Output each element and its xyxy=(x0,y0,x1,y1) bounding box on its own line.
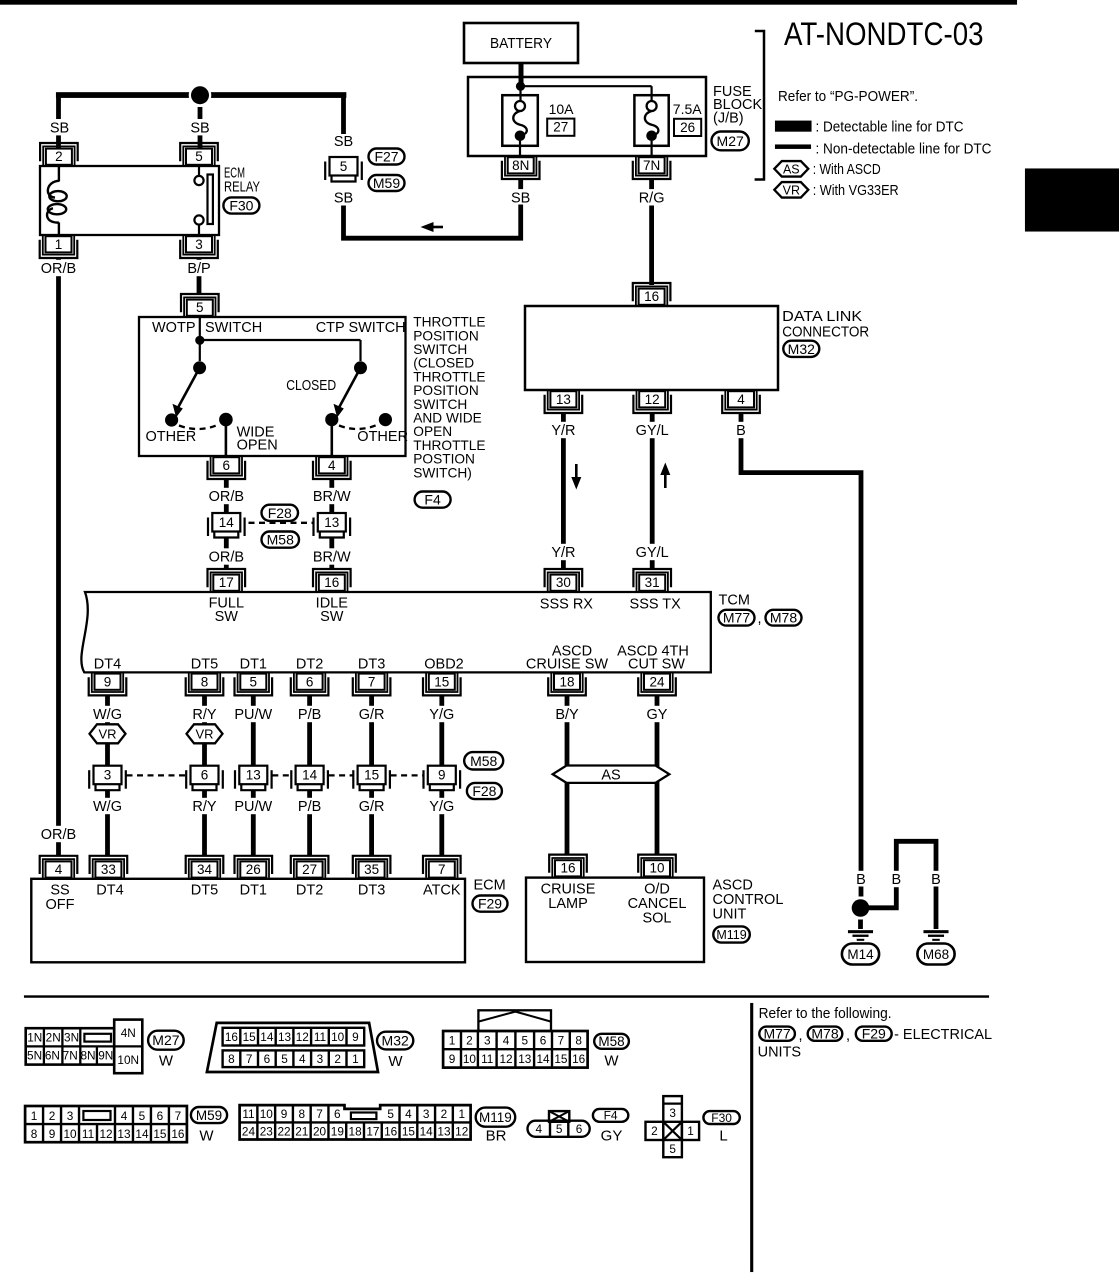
wire junction to M68 elbow xyxy=(866,887,896,908)
svg-text:5: 5 xyxy=(139,1109,146,1123)
svg-text:3: 3 xyxy=(104,768,112,783)
connector ref F30 xyxy=(703,1111,739,1124)
svg-text:9N: 9N xyxy=(98,1049,113,1063)
net label P/B xyxy=(295,798,324,814)
svg-text:M27: M27 xyxy=(152,1032,179,1048)
wire P/B TCM to connector 14 xyxy=(307,695,312,765)
legend VR symbol xyxy=(774,182,808,198)
net label OR/B xyxy=(40,260,77,276)
svg-text:,: , xyxy=(846,1028,850,1044)
net label BR/W xyxy=(313,488,350,504)
svg-text:3: 3 xyxy=(669,1106,676,1120)
svg-text:3: 3 xyxy=(423,1107,430,1121)
svg-text:6: 6 xyxy=(201,768,209,783)
contact WIDE OPEN xyxy=(219,413,233,427)
legend detectable line swatch xyxy=(775,121,812,132)
svg-text:6: 6 xyxy=(306,675,314,690)
svg-text:OFF: OFF xyxy=(46,897,75,913)
wire BR/W 13 to TCM 16 xyxy=(329,538,334,569)
svg-text:SB: SB xyxy=(50,120,69,136)
svg-text:14: 14 xyxy=(135,1127,149,1141)
svg-text:7N: 7N xyxy=(643,158,660,173)
svg-text:WOTP: WOTP xyxy=(152,320,196,336)
connector pin 16 xyxy=(636,286,667,305)
svg-text:4: 4 xyxy=(737,392,745,407)
svg-text:B: B xyxy=(856,872,866,888)
ECM box xyxy=(31,879,465,963)
dashed connector link 13-14 xyxy=(272,774,290,776)
svg-text:8: 8 xyxy=(575,1034,582,1048)
svg-text:4: 4 xyxy=(405,1107,412,1121)
net label R/G xyxy=(637,189,666,205)
svg-text:6: 6 xyxy=(264,1052,271,1066)
wire SB to relay pin 5 xyxy=(198,107,203,148)
svg-text:OR/B: OR/B xyxy=(209,550,244,566)
svg-text:6: 6 xyxy=(334,1107,341,1121)
connector ref F4 xyxy=(415,492,451,508)
connector layout M59 xyxy=(25,1106,187,1142)
connector pin 31 xyxy=(637,572,668,591)
svg-text:UNITS: UNITS xyxy=(758,1045,802,1061)
svg-text:7.5A: 7.5A xyxy=(673,101,702,117)
svg-text:F28: F28 xyxy=(472,783,496,799)
svg-text:24: 24 xyxy=(242,1124,256,1138)
svg-text:W/G: W/G xyxy=(93,707,122,723)
svg-text:7: 7 xyxy=(368,675,376,690)
svg-text:34: 34 xyxy=(197,862,213,877)
svg-text:15: 15 xyxy=(554,1052,568,1066)
svg-text:30: 30 xyxy=(556,575,571,590)
connector 14 F28/M58 xyxy=(207,518,209,537)
svg-text:PU/W: PU/W xyxy=(234,707,272,723)
fuse block M27 box xyxy=(468,77,706,156)
svg-text:5: 5 xyxy=(521,1034,528,1048)
svg-text:AT-NONDTC-03: AT-NONDTC-03 xyxy=(784,16,984,52)
svg-text:16: 16 xyxy=(644,289,659,304)
node ground junction xyxy=(849,897,871,919)
svg-text:PU/W: PU/W xyxy=(234,799,272,815)
separator vertical line xyxy=(750,1003,753,1272)
svg-text:15: 15 xyxy=(364,768,379,783)
VR option symbol xyxy=(90,724,126,743)
svg-text:20: 20 xyxy=(313,1124,327,1138)
net label B xyxy=(890,871,903,887)
svg-text:12: 12 xyxy=(499,1052,512,1066)
svg-text:8: 8 xyxy=(299,1107,306,1121)
svg-text:5: 5 xyxy=(250,675,258,690)
connector 3 M58/F28 xyxy=(88,770,90,789)
svg-text:23: 23 xyxy=(260,1124,274,1138)
svg-text:7: 7 xyxy=(316,1107,323,1121)
connector pin 9 xyxy=(92,673,123,692)
svg-text:9: 9 xyxy=(49,1127,56,1141)
svg-text:VR: VR xyxy=(783,183,800,197)
svg-text:18: 18 xyxy=(559,675,574,690)
connector layout M58 xyxy=(478,1010,551,1031)
svg-text:13: 13 xyxy=(437,1124,451,1138)
connector pin 27 xyxy=(294,859,325,878)
svg-text:SB: SB xyxy=(334,134,353,150)
wire R/Y to ECM xyxy=(202,790,207,856)
relay ECM RELAY box xyxy=(40,166,219,235)
svg-text:5: 5 xyxy=(340,159,348,174)
svg-text:4: 4 xyxy=(55,862,63,877)
net label Y/R xyxy=(549,422,578,438)
svg-text:19: 19 xyxy=(331,1124,344,1138)
net label SB xyxy=(49,119,70,135)
connector 9 M58/F28 xyxy=(422,770,424,789)
svg-text:M58: M58 xyxy=(470,753,497,769)
net label SB xyxy=(510,189,531,205)
svg-text:R/Y: R/Y xyxy=(192,799,217,815)
node fuse block junction xyxy=(516,82,525,91)
wire OR/B 14 to TCM 17 xyxy=(224,538,229,569)
svg-text:M68: M68 xyxy=(923,947,949,962)
svg-text:F29: F29 xyxy=(478,896,502,912)
svg-text:DT3: DT3 xyxy=(358,882,385,898)
wire wotp feed xyxy=(199,317,201,361)
svg-text:13: 13 xyxy=(556,392,571,407)
wire junction to M14 ground xyxy=(858,920,863,930)
connector ref M27 xyxy=(712,132,749,151)
wire B to ground junction xyxy=(859,887,864,897)
connector pin 2 xyxy=(43,146,74,165)
svg-text:SWITCH: SWITCH xyxy=(205,320,262,336)
svg-text:CLOSED: CLOSED xyxy=(286,378,336,394)
svg-text:21: 21 xyxy=(295,1124,308,1138)
svg-text:14: 14 xyxy=(302,768,318,783)
svg-text:26: 26 xyxy=(680,120,695,135)
svg-text:9: 9 xyxy=(449,1052,456,1066)
connector 6 M58/F28 xyxy=(185,770,187,789)
net label PU/W xyxy=(235,798,272,814)
svg-text:M119: M119 xyxy=(479,1110,512,1125)
svg-text:AS: AS xyxy=(783,162,800,176)
contact CLOSED xyxy=(325,413,338,426)
black index tab xyxy=(1025,169,1119,232)
svg-text:6N: 6N xyxy=(45,1049,60,1063)
wire PU/W TCM to connector 13 xyxy=(251,695,256,765)
svg-text:LAMP: LAMP xyxy=(548,896,588,912)
TCM box xyxy=(81,592,710,672)
connector pin 4 xyxy=(725,391,756,410)
svg-text:5: 5 xyxy=(196,300,204,315)
connector ref F28 xyxy=(467,783,502,799)
svg-text:16: 16 xyxy=(171,1127,185,1141)
svg-text:1: 1 xyxy=(352,1052,359,1066)
svg-text:4: 4 xyxy=(121,1109,128,1123)
svg-text:M59: M59 xyxy=(196,1108,222,1123)
svg-text:TCM: TCM xyxy=(719,593,750,609)
net label P/B xyxy=(295,706,324,722)
svg-text:10N: 10N xyxy=(117,1053,139,1067)
net label SB xyxy=(189,119,210,135)
svg-text:B/P: B/P xyxy=(187,261,210,277)
svg-text:G/R: G/R xyxy=(359,707,385,723)
wire ctp feed xyxy=(200,339,361,341)
svg-text:10: 10 xyxy=(260,1107,274,1121)
connector pin 33 xyxy=(93,859,124,878)
svg-text:35: 35 xyxy=(364,862,379,877)
svg-text:GY/L: GY/L xyxy=(636,545,669,561)
node throttle junction xyxy=(195,336,204,345)
svg-text:14: 14 xyxy=(260,1030,274,1044)
connector pin 13 xyxy=(548,391,579,410)
wire OR/B pin6 to 14 xyxy=(224,479,229,513)
svg-text:4: 4 xyxy=(535,1122,542,1136)
relay contact xyxy=(198,166,200,176)
svg-text:M77: M77 xyxy=(723,610,750,626)
svg-text:3: 3 xyxy=(195,237,203,252)
net label GY/L xyxy=(633,422,670,438)
svg-text:Refer to the following.: Refer to the following. xyxy=(759,1006,892,1022)
svg-text:W: W xyxy=(159,1053,174,1070)
net label B/Y xyxy=(552,706,581,722)
svg-text:Y/G: Y/G xyxy=(429,799,454,815)
svg-text:: With ASCD: : With ASCD xyxy=(813,162,881,178)
wire B/P relay pin3 down xyxy=(197,258,202,294)
ground M68 xyxy=(924,930,949,933)
svg-text:OTHER: OTHER xyxy=(357,429,408,445)
dashed throw arc xyxy=(339,425,378,430)
connector pin 35 xyxy=(356,859,387,878)
svg-text:- ELECTRICAL: - ELECTRICAL xyxy=(894,1027,992,1043)
net label BR/W xyxy=(313,548,350,564)
connector pin 34 xyxy=(189,859,220,878)
wire battery to fuse block xyxy=(519,63,524,84)
svg-text:BR/W: BR/W xyxy=(313,550,351,566)
connector ref M32 xyxy=(377,1032,413,1050)
svg-text:GY: GY xyxy=(647,707,668,723)
svg-text:14: 14 xyxy=(219,515,235,530)
svg-text:Y/R: Y/R xyxy=(551,423,575,439)
svg-text:DT2: DT2 xyxy=(296,656,323,672)
svg-text:9: 9 xyxy=(281,1107,288,1121)
wire P/B to ECM xyxy=(307,790,312,856)
flow arrow up xyxy=(664,474,667,488)
connector layout M32 xyxy=(207,1023,378,1072)
connector 13 M58/F28 xyxy=(234,770,236,789)
net label W/G xyxy=(93,798,122,814)
connector pin 8 xyxy=(189,673,220,692)
svg-text:13: 13 xyxy=(117,1127,131,1141)
svg-text:27: 27 xyxy=(302,862,317,877)
svg-text:8: 8 xyxy=(228,1052,235,1066)
svg-text:CTP SWITCH: CTP SWITCH xyxy=(316,320,406,336)
wire GY TCM 24 down xyxy=(655,695,660,855)
svg-text:7: 7 xyxy=(175,1109,182,1123)
wire Y/G TCM to connector 9 xyxy=(439,695,444,765)
svg-text:SOL: SOL xyxy=(642,910,671,926)
connector ref M78 xyxy=(766,610,802,626)
wire R/G 7N to DLC xyxy=(649,179,654,190)
net label OR/B xyxy=(208,548,245,564)
ASCD control unit box xyxy=(526,878,704,962)
svg-text:2: 2 xyxy=(49,1109,56,1123)
connector ref M77 xyxy=(759,1027,795,1041)
connector pin 3 xyxy=(183,236,214,255)
relay coil xyxy=(58,166,60,182)
connector ref F30 xyxy=(223,197,259,213)
svg-text:6: 6 xyxy=(540,1034,547,1048)
svg-text:1N: 1N xyxy=(27,1031,42,1045)
wire Y/G to ECM xyxy=(439,790,444,856)
svg-text:2: 2 xyxy=(651,1124,658,1138)
svg-text:15: 15 xyxy=(434,675,449,690)
connector ref M59 xyxy=(191,1107,227,1123)
switch WOTP arm xyxy=(193,361,206,374)
data link connector box M32 xyxy=(525,306,778,390)
svg-text:R/G: R/G xyxy=(639,191,665,207)
connector pin 1 xyxy=(43,236,74,255)
wire SB bus bar xyxy=(56,92,346,98)
net label B xyxy=(734,422,747,438)
svg-text:16: 16 xyxy=(324,575,339,590)
svg-text:CRUISE SW: CRUISE SW xyxy=(526,656,608,672)
contact OTHER right xyxy=(379,413,392,426)
wire W/G to ECM xyxy=(105,790,110,856)
connector ref M59 xyxy=(369,175,405,191)
connector ref F27 xyxy=(369,149,405,165)
net label G/R xyxy=(357,706,386,722)
svg-text:31: 31 xyxy=(645,575,660,590)
svg-text:3: 3 xyxy=(67,1109,74,1123)
svg-text:OBD2: OBD2 xyxy=(424,656,464,672)
svg-text:12: 12 xyxy=(645,392,660,407)
svg-text:BATTERY: BATTERY xyxy=(490,36,552,52)
svg-text:M32: M32 xyxy=(788,341,815,357)
svg-text:3: 3 xyxy=(317,1052,324,1066)
svg-text:DT4: DT4 xyxy=(94,656,121,672)
svg-text:CONNECTOR: CONNECTOR xyxy=(782,325,869,341)
svg-text:GY/L: GY/L xyxy=(636,423,669,439)
svg-text:F30: F30 xyxy=(711,1111,732,1125)
contact OTHER xyxy=(165,413,178,426)
svg-text:M78: M78 xyxy=(811,1026,838,1042)
connector ref F29 xyxy=(473,896,508,912)
net label B xyxy=(929,871,942,887)
svg-text:M78: M78 xyxy=(770,610,797,626)
svg-text:11: 11 xyxy=(242,1107,254,1121)
svg-text:F30: F30 xyxy=(229,198,253,214)
connector ref M58 xyxy=(262,532,300,548)
svg-text:RELAY: RELAY xyxy=(224,180,260,196)
svg-text:1: 1 xyxy=(55,237,63,252)
connector pin 5 xyxy=(238,673,269,692)
wire B down to M68 xyxy=(934,887,939,930)
connector 14 M58/F28 xyxy=(290,770,292,789)
svg-text:4: 4 xyxy=(328,458,336,473)
svg-text:11: 11 xyxy=(481,1052,493,1066)
svg-text:7: 7 xyxy=(558,1034,565,1048)
svg-text:B: B xyxy=(736,423,746,439)
svg-text:F27: F27 xyxy=(374,149,398,165)
dashed connector link 3-6 xyxy=(127,774,186,776)
net label Y/G xyxy=(427,798,456,814)
connector pin 30 xyxy=(548,572,579,591)
wire fuse block internal feed xyxy=(521,85,652,87)
svg-text:8: 8 xyxy=(31,1127,38,1141)
svg-text:R/Y: R/Y xyxy=(192,707,217,723)
svg-text:15: 15 xyxy=(153,1127,167,1141)
svg-text:3: 3 xyxy=(484,1034,491,1048)
svg-text:16: 16 xyxy=(572,1052,586,1066)
battery B1 xyxy=(464,23,578,63)
wire G/R TCM to connector 15 xyxy=(369,695,374,765)
svg-text:4N: 4N xyxy=(121,1026,136,1040)
svg-text:2N: 2N xyxy=(46,1031,61,1045)
flow arrow down xyxy=(575,464,578,478)
svg-text:OPEN: OPEN xyxy=(237,438,278,454)
separator line xyxy=(24,995,989,997)
svg-text:13: 13 xyxy=(278,1030,292,1044)
svg-text:BR/W: BR/W xyxy=(313,489,351,505)
svg-text:12: 12 xyxy=(296,1030,309,1044)
svg-text:27: 27 xyxy=(553,120,568,135)
net label W/G xyxy=(93,706,122,722)
net label GY xyxy=(646,706,667,722)
connector pin 5 xyxy=(184,297,215,316)
svg-text:M32: M32 xyxy=(382,1033,409,1049)
VR option symbol xyxy=(187,724,223,743)
connector pin 10 xyxy=(641,858,672,877)
svg-text:1: 1 xyxy=(458,1107,465,1121)
connector layout F30 xyxy=(663,1096,682,1157)
svg-text:M119: M119 xyxy=(716,928,746,942)
svg-text:5: 5 xyxy=(556,1122,563,1136)
svg-text:VR: VR xyxy=(195,726,213,741)
svg-text:1: 1 xyxy=(31,1109,38,1123)
connector ref F4 xyxy=(593,1109,628,1122)
connector pin 6 xyxy=(211,457,242,476)
svg-text:4: 4 xyxy=(299,1052,306,1066)
net label Y/G xyxy=(427,706,456,722)
svg-text:SSS RX: SSS RX xyxy=(540,596,594,612)
connector pin 15 xyxy=(426,673,457,692)
connector pin 6 xyxy=(294,673,325,692)
svg-text:DT2: DT2 xyxy=(296,882,323,898)
wire G/R to ECM xyxy=(369,790,374,856)
connector ref M77 xyxy=(719,610,755,626)
dashed connector link 15-9 xyxy=(391,774,423,776)
svg-text:F4: F4 xyxy=(604,1109,618,1123)
svg-text:2: 2 xyxy=(334,1052,341,1066)
connector layout F4 xyxy=(549,1111,569,1122)
svg-text:OR/B: OR/B xyxy=(41,827,76,843)
svg-text:DT1: DT1 xyxy=(240,656,267,672)
svg-text:AS: AS xyxy=(601,767,620,783)
svg-text:P/B: P/B xyxy=(298,799,321,815)
dashed connector link 14-15 xyxy=(329,774,353,776)
wire GY/L down to TCM 31 xyxy=(650,413,655,569)
connector layout M119 xyxy=(240,1105,471,1139)
connector pin 18 xyxy=(551,673,582,692)
svg-text:SB: SB xyxy=(334,191,353,207)
switch CTP arm xyxy=(354,361,367,374)
connector 15 M58/F28 xyxy=(352,770,354,789)
svg-text:M14: M14 xyxy=(847,947,874,962)
ground M14 xyxy=(848,930,873,933)
connector 13 F28/M58 xyxy=(312,518,314,537)
net label PU/W xyxy=(235,706,272,722)
svg-text:L: L xyxy=(719,1128,727,1145)
svg-text:DATA LINK: DATA LINK xyxy=(782,309,862,325)
node SB junction xyxy=(189,84,212,107)
svg-text:SB: SB xyxy=(190,120,209,136)
svg-text:15: 15 xyxy=(243,1030,257,1044)
net label SB xyxy=(333,133,354,149)
svg-text:DT5: DT5 xyxy=(191,656,218,672)
